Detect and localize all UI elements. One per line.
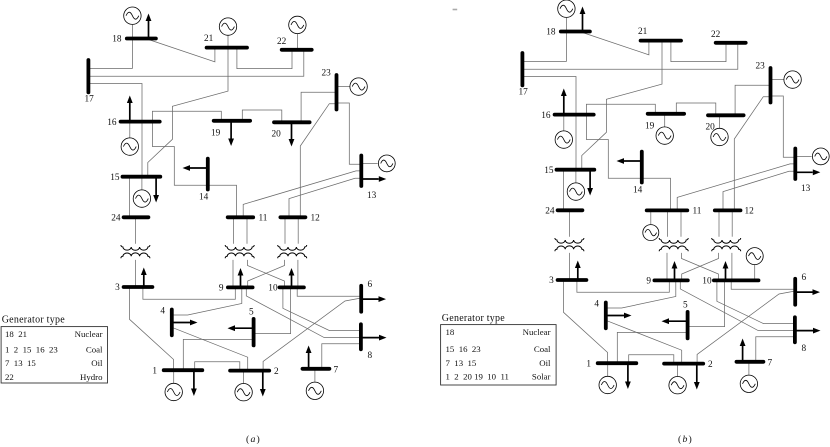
svg-text:6: 6 bbox=[368, 280, 373, 290]
svg-text:12: 12 bbox=[745, 206, 755, 216]
svg-text:7: 7 bbox=[768, 358, 773, 368]
svg-text:18: 18 bbox=[446, 327, 455, 337]
svg-text:16: 16 bbox=[541, 111, 551, 121]
svg-text:22: 22 bbox=[277, 37, 287, 47]
svg-text:Coal: Coal bbox=[86, 345, 103, 355]
svg-text:4: 4 bbox=[160, 307, 165, 317]
svg-text:9: 9 bbox=[646, 276, 651, 286]
svg-text:14: 14 bbox=[633, 186, 643, 196]
svg-text:1 2 15 16 23: 1 2 15 16 23 bbox=[5, 345, 58, 355]
svg-text:Oil: Oil bbox=[91, 358, 103, 368]
svg-text:19: 19 bbox=[211, 129, 221, 139]
svg-text:Coal: Coal bbox=[534, 344, 551, 354]
svg-text:5: 5 bbox=[249, 308, 254, 318]
svg-text:22: 22 bbox=[711, 30, 721, 40]
svg-text:(b): (b) bbox=[678, 434, 693, 445]
svg-text:Oil: Oil bbox=[539, 358, 551, 368]
svg-text:18: 18 bbox=[546, 28, 556, 38]
svg-text:8: 8 bbox=[368, 351, 373, 361]
svg-text:Nuclear: Nuclear bbox=[523, 327, 551, 337]
svg-text:15: 15 bbox=[110, 173, 120, 183]
svg-text:2: 2 bbox=[274, 367, 279, 377]
svg-text:17: 17 bbox=[85, 95, 95, 105]
svg-text:19: 19 bbox=[645, 122, 655, 132]
svg-text:17: 17 bbox=[519, 88, 529, 98]
svg-text:24: 24 bbox=[111, 214, 121, 224]
svg-text:14: 14 bbox=[199, 193, 209, 203]
svg-text:7 13 15: 7 13 15 bbox=[446, 358, 477, 368]
svg-text:Generator type: Generator type bbox=[442, 313, 506, 324]
svg-text:1 2 20 19 10 11: 1 2 20 19 10 11 bbox=[446, 371, 509, 381]
svg-text:7 13 15: 7 13 15 bbox=[5, 358, 36, 368]
svg-text:16: 16 bbox=[107, 118, 117, 128]
svg-text:18 21: 18 21 bbox=[5, 329, 27, 339]
svg-text:22: 22 bbox=[5, 372, 14, 382]
svg-text:15 16 23: 15 16 23 bbox=[446, 344, 482, 354]
svg-text:3: 3 bbox=[549, 276, 554, 286]
svg-text:1: 1 bbox=[152, 367, 157, 377]
svg-text:6: 6 bbox=[802, 273, 807, 283]
svg-text:3: 3 bbox=[115, 283, 120, 293]
svg-text:4: 4 bbox=[594, 300, 599, 310]
svg-text:10: 10 bbox=[268, 284, 278, 294]
svg-text:1: 1 bbox=[586, 360, 591, 370]
svg-text:20: 20 bbox=[706, 122, 716, 132]
svg-text:13: 13 bbox=[367, 191, 377, 201]
svg-text:23: 23 bbox=[322, 69, 332, 79]
svg-text:(a): (a) bbox=[246, 434, 261, 445]
svg-text:7: 7 bbox=[334, 365, 339, 375]
svg-text:Generator type: Generator type bbox=[2, 314, 66, 325]
svg-text:15: 15 bbox=[544, 166, 554, 176]
svg-text:11: 11 bbox=[693, 206, 702, 216]
svg-text:21: 21 bbox=[638, 27, 648, 37]
svg-text:23: 23 bbox=[756, 62, 766, 72]
svg-text:12: 12 bbox=[311, 213, 321, 223]
svg-text:Hydro: Hydro bbox=[80, 372, 103, 382]
svg-text:24: 24 bbox=[545, 207, 555, 217]
svg-text:2: 2 bbox=[708, 360, 713, 370]
svg-text:Solar: Solar bbox=[532, 371, 551, 381]
svg-text:8: 8 bbox=[802, 344, 807, 354]
svg-text:10: 10 bbox=[702, 277, 712, 287]
svg-text:18: 18 bbox=[112, 35, 122, 45]
svg-text:13: 13 bbox=[801, 184, 811, 194]
svg-text:Nuclear: Nuclear bbox=[75, 329, 103, 339]
svg-text:9: 9 bbox=[219, 284, 224, 294]
svg-text:5: 5 bbox=[683, 301, 688, 311]
svg-text:20: 20 bbox=[272, 129, 282, 139]
svg-text:21: 21 bbox=[204, 34, 214, 44]
svg-text:11: 11 bbox=[259, 213, 268, 223]
